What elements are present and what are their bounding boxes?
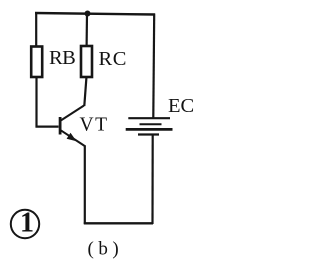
svg-text:RC: RC bbox=[99, 48, 128, 70]
resistor RB bbox=[31, 47, 42, 78]
svg-text:EC: EC bbox=[168, 95, 194, 117]
wire left vertical upper bbox=[35, 12, 37, 47]
wire bottom horizontal bbox=[84, 222, 153, 224]
wire right vertical lower bbox=[151, 136, 153, 225]
wire RC top vertical bbox=[85, 13, 88, 47]
svg-text:(b): (b) bbox=[88, 239, 124, 260]
circled number 1 bbox=[11, 208, 39, 239]
wire top horizontal bbox=[35, 13, 155, 15]
svg-text:VT: VT bbox=[80, 115, 109, 136]
node junction dot top bbox=[85, 11, 91, 17]
battery EC bbox=[126, 118, 173, 134]
wire emitter vertical bbox=[84, 146, 86, 225]
wire base horizontal bbox=[36, 125, 59, 127]
svg-text:RB: RB bbox=[49, 47, 75, 69]
wire collector drop from RC bbox=[84, 77, 86, 107]
wire left vertical lower bbox=[35, 77, 37, 128]
transistor VT bbox=[59, 106, 86, 147]
wire right vertical upper bbox=[152, 14, 155, 118]
resistor RC bbox=[81, 46, 92, 77]
svg-text:1: 1 bbox=[20, 208, 34, 239]
